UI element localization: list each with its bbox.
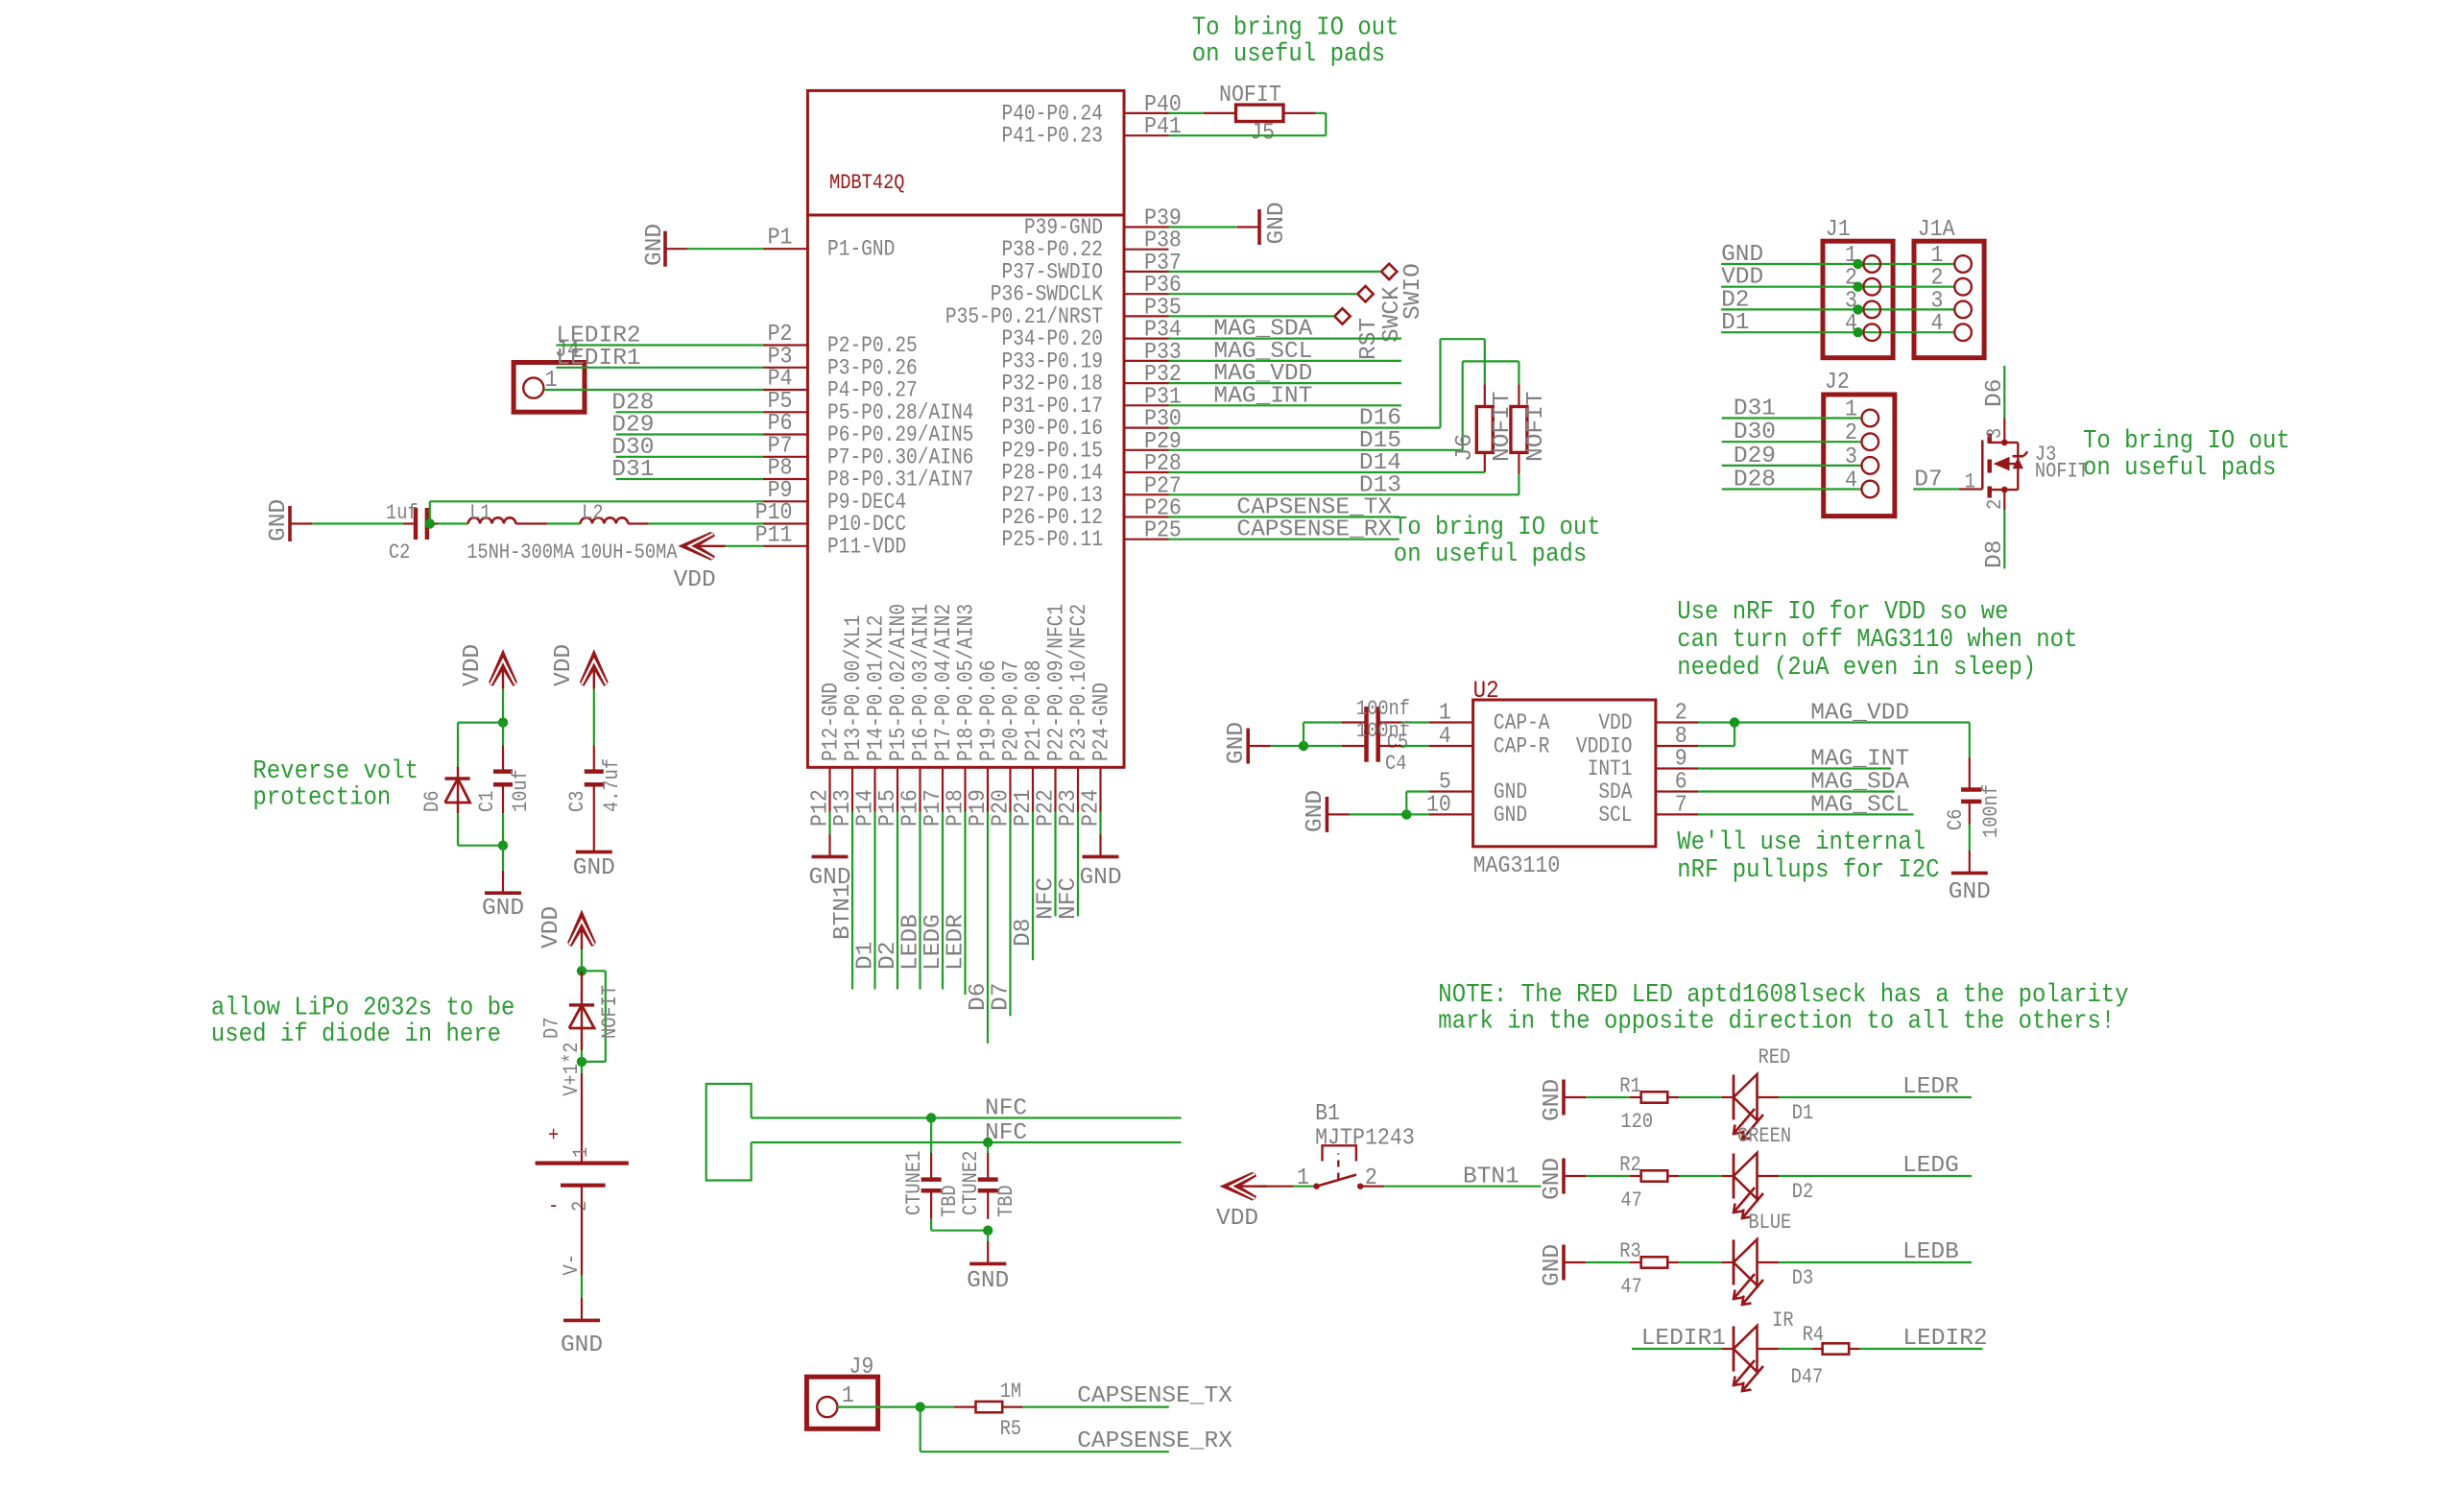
svg-text:J1: J1 (1826, 216, 1851, 242)
svg-text:P3-P0.26: P3-P0.26 (827, 356, 918, 381)
resistor R2 47 (1619, 1154, 1679, 1213)
note: to bring IO out (mid) (1394, 513, 1601, 568)
ground symbol at P39 (1237, 202, 1290, 245)
wire R5 to CAPSENSE_TX (1002, 1383, 1232, 1409)
svg-text:P31-P0.17: P31-P0.17 (1001, 394, 1103, 419)
svg-text:P30-P0.16: P30-P0.16 (1001, 417, 1103, 442)
svg-text:P37-SWDIO: P37-SWDIO (1001, 260, 1103, 285)
svg-text:IR: IR (1772, 1309, 1793, 1333)
wire D7 to J3 gate (1913, 468, 1982, 493)
wire LED D47 to R4 (1779, 1348, 1812, 1350)
ground symbol below C6 (1949, 848, 1991, 905)
svg-text:SCL: SCL (1598, 804, 1632, 828)
svg-text:MAG_SCL: MAG_SCL (1810, 792, 1909, 818)
wire CTUNE1 to CTUNE2 bottom (931, 1219, 988, 1231)
pin P28 (P28-P0.14) right side (1001, 450, 1181, 486)
svg-text:GND: GND (1949, 879, 1991, 905)
ground symbol left of U2 pin10 (1303, 790, 1350, 832)
svg-text:D7: D7 (540, 1018, 564, 1039)
svg-text:GND: GND (1264, 202, 1290, 244)
capacitor C4 100nf (1304, 720, 1429, 777)
svg-text:GND: GND (1540, 1158, 1566, 1200)
svg-text:on useful pads: on useful pads (2083, 453, 2276, 482)
svg-text:P1-GND: P1-GND (827, 237, 895, 262)
svg-text:LEDIR1: LEDIR1 (1641, 1326, 1726, 1352)
wire junction to U2 pin5 (1406, 792, 1428, 815)
pin P19 (P19-P0.06) bottom side (965, 660, 1002, 827)
svg-text:LEDB: LEDB (1902, 1239, 1959, 1265)
pad J1 pin 2 (1853, 278, 1880, 296)
svg-text:LEDG: LEDG (1902, 1153, 1959, 1179)
svg-text:120: 120 (1620, 1111, 1653, 1135)
connector J4 (514, 337, 585, 412)
junction node U2 GND (1401, 809, 1411, 819)
node SWCK diamond (1357, 286, 1405, 343)
module U1 MDBT42Q main block outline (807, 215, 1124, 767)
svg-text:P22-P0.09/NFC1: P22-P0.09/NFC1 (1044, 604, 1069, 761)
junction node C4/C5 (1299, 741, 1308, 751)
svg-text:NOFIT: NOFIT (1219, 82, 1281, 108)
wire D1 from module bottom (853, 812, 879, 990)
pin P41 (P41-P0.23) right side (1001, 113, 1181, 149)
svg-text:D29: D29 (1734, 444, 1776, 469)
svg-text:P41-P0.23: P41-P0.23 (1001, 124, 1103, 149)
note: RED LED polarity (1438, 980, 2128, 1036)
diode D6 (421, 767, 470, 814)
pin U2 2 (VDD) right (1598, 700, 1698, 736)
svg-text:Use nRF IO for VDD so we: Use nRF IO for VDD so we (1677, 597, 2008, 626)
svg-text:GND: GND (967, 1268, 1009, 1294)
note: use nRF IO (1677, 597, 2077, 682)
svg-text:R3: R3 (1619, 1240, 1640, 1264)
pin P21 (P21-P0.08) bottom side (1010, 660, 1047, 827)
wire VDD to P11 (725, 545, 763, 547)
svg-text:MJTP1243: MJTP1243 (1315, 1125, 1415, 1151)
svg-text:4: 4 (1845, 468, 1857, 493)
svg-text:allow LiPo 2032s to be: allow LiPo 2032s to be (211, 993, 515, 1021)
connector J1A (1914, 216, 1984, 358)
svg-text:100nf: 100nf (1980, 784, 2004, 838)
capacitor C2 1uf (386, 502, 438, 565)
svg-text:-: - (548, 1195, 559, 1219)
svg-text:D7: D7 (1914, 468, 1942, 493)
ground symbol below CTUNE caps (967, 1231, 1009, 1294)
node SWIO diamond (1381, 263, 1426, 320)
pin P33 (P33-P0.19) right side (1001, 339, 1181, 374)
wire VDD to C1 junction (502, 689, 504, 723)
svg-text:P8-P0.31/AIN7: P8-P0.31/AIN7 (827, 468, 973, 492)
pin P29 (P29-P0.15) right side (1001, 428, 1181, 464)
svg-text:D6: D6 (421, 791, 445, 812)
pad J1A pin 3 (1954, 301, 1972, 319)
wire R1 to LED D1 (1679, 1096, 1722, 1098)
svg-text:CTUNE2: CTUNE2 (960, 1151, 984, 1215)
LED D2 GREEN (1722, 1125, 1813, 1218)
wire NFC lower (752, 1120, 1182, 1146)
svg-text:P39-GND: P39-GND (1024, 216, 1103, 241)
svg-text:10: 10 (1426, 791, 1451, 817)
svg-text:C1: C1 (476, 791, 500, 812)
wire D28 to J2 pin 4 (1722, 468, 1862, 493)
svg-text:Reverse volt: Reverse volt (252, 756, 419, 785)
ground symbol left of C4/C5 (1224, 722, 1271, 764)
wire LEDR from module bottom (944, 812, 969, 995)
note: we'll use internal pullups (1677, 828, 1939, 884)
svg-text:V+1*2: V+1*2 (561, 1043, 585, 1096)
wire LEDIR2 (P2) (556, 324, 763, 349)
wire ground to R3 (1586, 1261, 1630, 1263)
power VDD arrow above battery (538, 906, 594, 949)
svg-text:100nf: 100nf (1356, 698, 1410, 722)
svg-text:P24-GND: P24-GND (1089, 683, 1114, 761)
wire P1 to ground (687, 248, 763, 250)
wire GND to J1 pin 1 (1721, 242, 1954, 268)
svg-text:1: 1 (1297, 1164, 1309, 1190)
svg-text:P21-P0.08: P21-P0.08 (1022, 660, 1047, 761)
wire D16 (P30) (1169, 339, 1485, 431)
pin P13 (P13-P0.00/XL1) bottom side (829, 615, 867, 827)
svg-text:NOFIT: NOFIT (2035, 460, 2089, 484)
svg-text:VDD: VDD (460, 644, 486, 686)
pin P27 (P27-P0.13) right side (1001, 472, 1181, 508)
svg-text:MAG_INT: MAG_INT (1810, 747, 1909, 773)
svg-text:D8: D8 (1011, 919, 1037, 947)
svg-text:2: 2 (1675, 700, 1687, 726)
svg-text:D28: D28 (1734, 468, 1776, 493)
svg-text:R5: R5 (1000, 1418, 1021, 1442)
svg-text:GND: GND (642, 224, 668, 266)
svg-text:L2: L2 (582, 502, 603, 526)
svg-text:R1: R1 (1619, 1075, 1640, 1099)
wire LEDIR1 (P3) (556, 346, 763, 372)
node V+1*2 wire (561, 1043, 585, 1096)
svg-text:GND: GND (1540, 1079, 1566, 1121)
power VDD arrow above C1 (460, 644, 515, 689)
pin P23 (P23-P0.10/NFC2) bottom side (1055, 604, 1092, 827)
wire D2 from module bottom (875, 812, 901, 990)
svg-text:CTUNE1: CTUNE1 (903, 1151, 927, 1215)
svg-text:P25-P0.11: P25-P0.11 (1001, 528, 1103, 553)
wire D30 to J2 pin 2 (1722, 420, 1862, 445)
wire J9 to junction (837, 1405, 920, 1407)
svg-text:C6: C6 (1945, 809, 1969, 830)
pin P16 (P16-P0.03/AIN1) bottom side (897, 604, 935, 827)
pin P10 (P10-DCC) left side (755, 499, 906, 538)
pad J1A pin 4 (1954, 324, 1972, 341)
pin U2 10 (GND) left (1426, 791, 1527, 828)
pin P24 (P24-GND) bottom side (1078, 683, 1115, 827)
svg-text:10UH-50MA: 10UH-50MA (581, 541, 679, 565)
wire ground to R2 (1586, 1175, 1630, 1177)
wire P37 SWIO (1169, 271, 1382, 273)
ground symbol at P1 (642, 224, 687, 267)
wire LED to LEDR (1779, 1074, 1972, 1100)
svg-text:LEDR: LEDR (944, 914, 969, 971)
wire ground to pin10 junction (1350, 813, 1407, 815)
wire LEDB from module bottom (898, 812, 924, 990)
svg-text:LEDIR2: LEDIR2 (1902, 1326, 1987, 1352)
svg-text:4.7uf: 4.7uf (601, 758, 625, 812)
capacitor C6 100nf (1945, 757, 2004, 849)
wire J5 to P41 loop (1169, 113, 1327, 135)
svg-text:100nf: 100nf (1356, 720, 1410, 744)
wire LEDG from module bottom (921, 812, 946, 990)
svg-text:P38-P0.22: P38-P0.22 (1001, 238, 1103, 263)
svg-text:SWCK: SWCK (1379, 286, 1405, 343)
svg-text:D1: D1 (1721, 310, 1749, 336)
svg-text:CAP-R: CAP-R (1494, 734, 1550, 759)
wire junction to ground (502, 846, 504, 871)
jumper J6 (NOFIT) body 1 (1452, 384, 1516, 472)
wire D29 to J2 pin 3 (1722, 444, 1862, 469)
svg-text:CAP-A: CAP-A (1494, 711, 1550, 736)
wire NFC upper (752, 1096, 1182, 1122)
svg-text:D1: D1 (1792, 1102, 1813, 1126)
wire junction to R5 (921, 1405, 976, 1407)
inductor L2 10UH-50MA (581, 502, 679, 565)
svg-text:To bring IO out: To bring IO out (2083, 426, 2290, 455)
svg-text:GREEN: GREEN (1737, 1125, 1791, 1149)
wire BTN1 from module bottom (830, 812, 856, 990)
svg-text:P1: P1 (768, 225, 793, 251)
svg-text:J5: J5 (1250, 120, 1275, 146)
svg-text:P17-P0.04/AIN2: P17-P0.04/AIN2 (932, 604, 957, 761)
wire D6 to J3 drain (1982, 366, 2008, 418)
wire CAPSENSE_RX (P25) (1169, 517, 1399, 543)
svg-text:P36-SWDCLK: P36-SWDCLK (991, 282, 1103, 307)
svg-text:NOFIT: NOFIT (1523, 391, 1549, 462)
svg-text:GND: GND (1303, 790, 1328, 832)
pin P26 (P26-P0.12) right side (1001, 495, 1181, 531)
svg-text:1uf: 1uf (386, 502, 419, 526)
svg-text:J1A: J1A (1918, 216, 1955, 242)
svg-text:GND: GND (808, 865, 850, 891)
pin P18 (P18-P0.05/AIN3) bottom side (943, 604, 980, 827)
module U1 MDBT42Q top block outline (807, 90, 1124, 215)
ground symbol below C3 (573, 829, 615, 881)
wire P39 to ground (1169, 226, 1237, 228)
svg-text:1: 1 (1845, 396, 1857, 422)
pad J1 pin 4 (1853, 324, 1880, 341)
wire P40 to J5 (1169, 112, 1236, 114)
capacitor CTUNE2 TBD (960, 1142, 1019, 1219)
wire junction to U2 pin10 (1406, 813, 1428, 815)
svg-text:+: + (548, 1124, 559, 1148)
svg-text:3: 3 (1845, 444, 1857, 469)
node V- wire (561, 1254, 585, 1298)
IC U2 MAG3110 outline (1473, 678, 1656, 878)
svg-text:NFC: NFC (985, 1096, 1027, 1122)
wire L2 to P10 (628, 522, 763, 524)
wire LEDIR1 (1632, 1326, 1726, 1352)
power VDD arrow at P11 (674, 534, 726, 593)
svg-text:CAPSENSE_RX: CAPSENSE_RX (1077, 1428, 1232, 1454)
svg-text:P29-P0.15: P29-P0.15 (1001, 439, 1103, 464)
wire ground to junction (1271, 745, 1304, 747)
NFC antenna coil (706, 1084, 752, 1181)
svg-text:D3: D3 (1792, 1267, 1813, 1291)
junction node D7 bottom (577, 1057, 586, 1067)
wire MAG_INT from module (1169, 383, 1402, 409)
resistor R3 47 (1619, 1240, 1679, 1300)
pin P25 (P25-P0.11) right side (1001, 517, 1181, 553)
wire MAG_SDA from module (1169, 317, 1402, 343)
jumper NOFIT body 2 (1511, 384, 1549, 494)
pin P38 (P38-P0.22) right side (1001, 228, 1181, 263)
svg-text:C2: C2 (389, 541, 410, 565)
connector J1 (1823, 216, 1893, 358)
pin P35 (P35-P0.21/NRST) right side (945, 294, 1182, 329)
svg-text:P14-P0.01/XL2: P14-P0.01/XL2 (864, 615, 889, 761)
svg-text:V-: V- (561, 1254, 585, 1275)
wire ground to C2 (312, 522, 402, 524)
junction node after C2 (425, 518, 435, 528)
svg-text:can turn off MAG3110 when not: can turn off MAG3110 when not (1677, 625, 2077, 654)
svg-text:MAG_VDD: MAG_VDD (1810, 701, 1909, 727)
svg-text:1: 1 (1439, 700, 1451, 726)
svg-text:on useful pads: on useful pads (1394, 540, 1587, 568)
svg-text:GND: GND (1494, 780, 1527, 805)
LED D1 RED (1722, 1046, 1813, 1140)
svg-text:P12-GND: P12-GND (819, 683, 844, 761)
wire junction to CAPSENSE_RX (921, 1407, 1233, 1454)
svg-text:TBD: TBD (995, 1185, 1019, 1217)
svg-text:RED: RED (1758, 1046, 1791, 1070)
svg-text:VDD: VDD (1598, 711, 1632, 736)
svg-text:mark in the opposite direction: mark in the opposite direction to all th… (1438, 1006, 2115, 1035)
pad J1 pin 1 (1853, 255, 1880, 273)
svg-text:1: 1 (1965, 470, 1975, 494)
pin P30 (P30-P0.16) right side (1001, 406, 1181, 442)
pin P34 (P34-P0.20) right side (1001, 317, 1181, 352)
svg-text:P20-P0.07: P20-P0.07 (999, 660, 1024, 761)
svg-text:MAG3110: MAG3110 (1473, 852, 1561, 878)
pin P14 (P14-P0.01/XL2) bottom side (852, 615, 890, 827)
svg-text:VDD: VDD (674, 567, 716, 593)
pin U2 7 (SCL) right (1598, 791, 1698, 828)
wire D30 to module (611, 435, 763, 461)
node RST diamond (1334, 308, 1382, 360)
svg-text:NOFIT: NOFIT (599, 985, 623, 1039)
svg-text:GND: GND (1079, 865, 1121, 891)
pad J2 pin 2 (1862, 433, 1879, 450)
svg-text:on useful pads: on useful pads (1192, 39, 1385, 68)
note: to bring IO out (right) (2083, 426, 2290, 482)
wire P36 SWCK (1169, 293, 1358, 295)
wire LED to LEDG (1779, 1153, 1972, 1179)
wire R4 to LEDIR2 (1859, 1326, 1988, 1352)
svg-text:10uf: 10uf (510, 769, 534, 812)
LED D3 BLUE (1722, 1212, 1813, 1305)
pin P31 (P31-P0.17) right side (1001, 383, 1181, 419)
ground symbol at R2 (1540, 1158, 1586, 1200)
pin P22 (P22-P0.09/NFC1) bottom side (1033, 604, 1070, 827)
svg-text:used if diode in here: used if diode in here (211, 1020, 501, 1048)
wire B1 to BTN1 (1360, 1164, 1541, 1190)
pin P2 (P2-P0.25) left side (763, 321, 918, 359)
pin P20 (P20-P0.07) bottom side (988, 660, 1025, 827)
svg-text:CAPSENSE_RX: CAPSENSE_RX (1236, 517, 1392, 543)
pad J2 pin 1 (1862, 410, 1879, 427)
pin U2 5 (GND) left (1429, 769, 1527, 805)
wire MAG_SCL from U2 pin7 (1698, 792, 1913, 818)
wire NOFIT bypass loop (582, 971, 606, 1062)
svg-text:U2: U2 (1473, 678, 1499, 705)
svg-text:2: 2 (1845, 420, 1857, 445)
junction node CTUNE1 (926, 1113, 936, 1122)
diode D7 (NOFIT) (540, 971, 622, 1050)
svg-text:P10-DCC: P10-DCC (827, 513, 906, 538)
wire D31 to J2 pin 1 (1722, 396, 1862, 422)
svg-text:1: 1 (842, 1382, 854, 1408)
svg-text:BTN1: BTN1 (830, 883, 856, 940)
svg-text:GND: GND (1494, 804, 1527, 828)
wire MAG_SDA from U2 pin6 (1698, 770, 1909, 796)
capacitor C3 4.7uf (566, 689, 625, 829)
svg-text:D2: D2 (1792, 1181, 1813, 1205)
svg-text:P16-P0.03/AIN1: P16-P0.03/AIN1 (909, 604, 934, 761)
wire D1 to J1 pin 4 (1721, 310, 1954, 336)
wire MAG_VDD from U2 pin2 (1698, 701, 1970, 727)
svg-text:SDA: SDA (1598, 780, 1632, 805)
svg-text:NFC: NFC (1056, 877, 1082, 920)
svg-text:P27-P0.13: P27-P0.13 (1001, 483, 1103, 508)
pin P4 (P4-P0.27) left side (763, 366, 918, 404)
pad J2 pin 3 (1862, 457, 1879, 474)
svg-text:nRF pullups for I2C: nRF pullups for I2C (1677, 855, 1939, 884)
wire MAG_SCL from module (1169, 339, 1402, 365)
svg-text:GND: GND (1224, 722, 1250, 764)
svg-text:MAG_INT: MAG_INT (1213, 383, 1312, 409)
svg-text:R4: R4 (1803, 1324, 1824, 1348)
capacitor C1 10uf (476, 723, 534, 846)
wire ground to R1 (1586, 1096, 1630, 1098)
svg-text:47: 47 (1620, 1276, 1641, 1300)
svg-text:P4-P0.27: P4-P0.27 (827, 378, 918, 403)
wire J4 pad to P4 (543, 389, 763, 391)
svg-text:D6: D6 (1982, 379, 2008, 407)
pad J1 pin 3 (1853, 301, 1880, 319)
svg-text:D30: D30 (1734, 420, 1776, 445)
svg-text:P9-DEC4: P9-DEC4 (827, 490, 906, 515)
pin U2 4 (CAP-R) left (1429, 723, 1550, 759)
svg-text:P19-P0.06: P19-P0.06 (977, 660, 1002, 761)
note: allow LiPo (211, 993, 515, 1048)
ground symbol at P24 (1079, 812, 1121, 891)
ground symbol at R3 (1540, 1244, 1586, 1286)
wire R3 to LED D3 (1679, 1261, 1722, 1263)
wire junction up to C5 row (1303, 723, 1304, 747)
svg-text:To bring IO out: To bring IO out (1394, 513, 1601, 541)
pin P37 (P37-SWDIO) right side (1001, 250, 1181, 285)
pin P6 (P6-P0.29/AIN5) left side (763, 410, 973, 448)
wire D8 from module bottom (1011, 812, 1037, 960)
pin P3 (P3-P0.26) left side (763, 343, 918, 381)
wire D31 to module (611, 457, 763, 483)
pin P1 (P1-GND) left side (763, 225, 895, 263)
wire LED to LEDB (1779, 1239, 1972, 1265)
svg-text:J9: J9 (849, 1354, 873, 1380)
pin P36 (P36-SWDCLK) right side (991, 272, 1182, 307)
button B1 MJTP1243 (1297, 1100, 1415, 1190)
junction node top of C1/D6 (498, 717, 508, 727)
svg-text:P15-P0.02/AIN0: P15-P0.02/AIN0 (887, 604, 912, 761)
svg-text:P2-P0.25: P2-P0.25 (827, 334, 918, 359)
svg-text:B1: B1 (1315, 1100, 1340, 1126)
pin P9 (P9-DEC4) left side (763, 477, 906, 516)
svg-text:VDD: VDD (1216, 1206, 1258, 1232)
wire D13 (P27) (1169, 472, 1519, 498)
